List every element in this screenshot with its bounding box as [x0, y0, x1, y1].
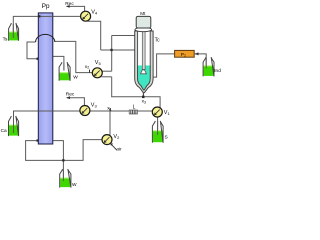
arrow air into V2: [110, 143, 117, 150]
arrow Rec mid head: [66, 96, 70, 99]
svg-text:Rec: Rec: [65, 1, 74, 7]
valve V2: [102, 135, 112, 145]
wire upper jacket port: [112, 35, 135, 37]
wire Rec mid branch: [67, 98, 85, 106]
wire main feed line: [14, 111, 153, 133]
svg-text:Tc: Tc: [155, 37, 161, 43]
wire V5 lower outlet: [102, 76, 112, 78]
sensor tick x1: [109, 108, 111, 111]
flask W lower: [60, 169, 71, 188]
junction main at column: [38, 110, 40, 112]
reactor jacket Tc: [135, 31, 153, 93]
wire V5 upper outlet: [102, 70, 112, 72]
wire V1 to flask S: [157, 117, 159, 135]
inductor L: [129, 110, 137, 114]
junction loop at column: [37, 139, 39, 141]
wire V2 riser: [109, 111, 111, 135]
svg-text:Rec: Rec: [66, 91, 75, 97]
svg-text:S: S: [165, 134, 168, 140]
motor Mt: [136, 16, 151, 28]
wire Ts feed riser: [13, 16, 80, 38]
flask Ts: [9, 23, 19, 41]
flask Ind: [203, 57, 214, 76]
svg-text:Mt: Mt: [140, 11, 146, 16]
pump P1: [175, 50, 195, 57]
flask Ca: [9, 116, 19, 136]
arrow Rec top head: [66, 5, 70, 8]
wire bump right to V5: [55, 41, 92, 72]
column Pp: [38, 13, 53, 144]
junction jacket: [110, 49, 112, 51]
wire V4 outlet down: [88, 21, 101, 50]
wire V2 left loop: [26, 140, 102, 161]
junction bump loop at column: [37, 58, 39, 60]
svg-text:W: W: [73, 75, 78, 81]
svg-text:L: L: [133, 105, 136, 111]
junction x3: [142, 96, 145, 99]
flask S: [152, 121, 163, 143]
svg-text:Ts: Ts: [3, 36, 8, 42]
svg-text:V5: V5: [95, 60, 102, 66]
valve V4: [81, 11, 91, 21]
valve V1: [152, 107, 162, 117]
wire across column mid: [38, 110, 53, 112]
wire bump left loop: [27, 42, 38, 59]
svg-text:x1: x1: [107, 107, 111, 112]
wire reactor bottom header: [111, 97, 160, 109]
svg-text:W: W: [72, 182, 77, 188]
reactor top flange: [135, 28, 152, 32]
valve V3: [80, 106, 90, 116]
svg-text:Pp: Pp: [42, 3, 50, 10]
sensor tick x2: [89, 70, 91, 73]
svg-text:Ca: Ca: [1, 128, 7, 134]
wire reactor suction to P1: [152, 54, 175, 77]
wire across column top: [38, 15, 53, 17]
svg-text:Ind: Ind: [214, 68, 221, 74]
svg-text:x2: x2: [85, 65, 89, 70]
svg-text:V3: V3: [91, 103, 98, 109]
wire waste1 pipe from column: [53, 56, 64, 70]
wire Ind to P1: [195, 54, 206, 68]
wire funnel stem: [142, 90, 144, 97]
svg-text:x3: x3: [142, 100, 146, 105]
impeller: [141, 70, 147, 74]
wire lower jacket port: [101, 49, 135, 51]
junction top at column: [38, 15, 40, 17]
valve V5: [92, 68, 102, 78]
wire jacket vertical lower: [111, 77, 113, 97]
wire column bottoms drain: [53, 141, 64, 181]
svg-text:V4: V4: [91, 10, 98, 16]
svg-text:V2: V2: [113, 134, 120, 140]
arrow into P1: [195, 52, 199, 55]
pump bump arc: [36, 34, 55, 42]
svg-text:V1: V1: [164, 110, 171, 116]
wire jacket vertical upper: [111, 36, 113, 72]
svg-text:air: air: [116, 147, 122, 153]
flask W upper: [59, 62, 70, 81]
svg-text:P1: P1: [181, 52, 186, 58]
stirrer shaft: [142, 28, 145, 70]
junction drain cross: [62, 159, 64, 161]
wire Rec top branch: [67, 6, 85, 11]
